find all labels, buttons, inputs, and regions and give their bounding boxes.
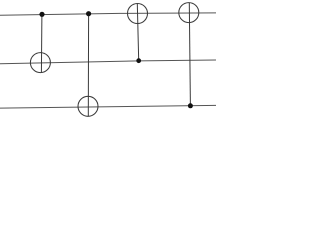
CNOT1 target on q1: [30, 53, 50, 73]
CNOT3 target on q0: [128, 4, 148, 24]
CNOT1 control dot on q0: [39, 12, 44, 17]
wire q2: [0, 105, 216, 108]
wire q1: [0, 60, 216, 64]
CNOT4 control dot on q2: [188, 103, 193, 108]
CNOT3 connector wire: [137, 4, 138, 61]
CNOT1 connector wire: [40, 14, 43, 72]
CNOT4 connector wire: [189, 3, 190, 106]
CNOT2 connector wire: [87, 14, 89, 117]
CNOT4 target on q0: [179, 3, 199, 23]
CNOT2 target on q2: [78, 96, 98, 116]
CNOT2 control dot on q0: [86, 11, 91, 16]
wire q0: [0, 13, 216, 15]
CNOT3 control dot on q1: [136, 58, 141, 63]
